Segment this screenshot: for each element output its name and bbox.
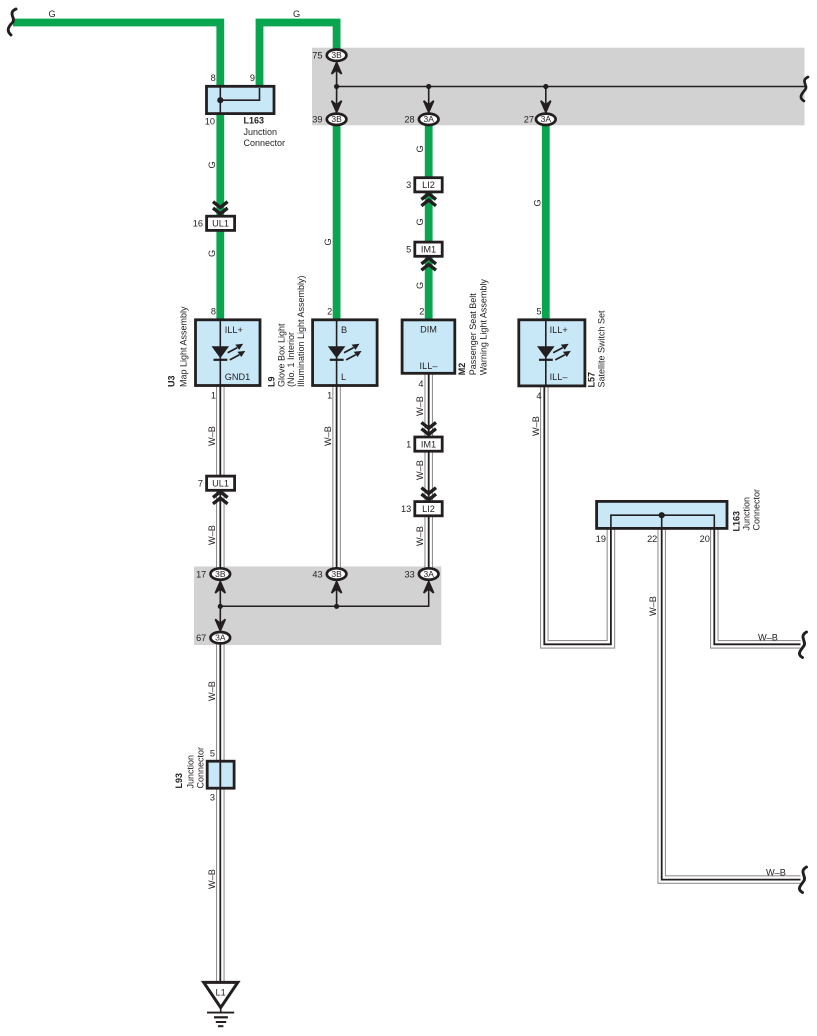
wire label W-B below L57 <box>531 416 541 436</box>
arrow up to 33-3A <box>424 582 434 594</box>
svg-text:Junction: Junction <box>186 755 196 789</box>
bus wire band1 <box>337 86 806 88</box>
svg-text:Passenger Seat Belt: Passenger Seat Belt <box>468 293 478 376</box>
svg-text:Map Light Assembly: Map Light Assembly <box>179 306 189 387</box>
M2 designator <box>457 279 489 376</box>
svg-text:Connector: Connector <box>195 747 205 789</box>
L163 top designator <box>244 116 286 149</box>
wire label G below UL1 <box>207 250 217 257</box>
break squiggle wire 20 right <box>799 632 806 658</box>
svg-text:5: 5 <box>536 307 541 317</box>
bus wire band2 <box>220 580 428 606</box>
node 17 label <box>196 569 206 579</box>
wire G connector 39-3B to L9 pin 2 <box>333 121 341 320</box>
LED U3 <box>212 344 246 360</box>
svg-text:2: 2 <box>327 307 332 317</box>
wire G IM1 5 to M2 pin 2 <box>425 256 433 320</box>
UL1 16 box text <box>212 219 229 229</box>
wire W-B connector 67-3A to L93 pin 5 <box>216 642 225 761</box>
component M2 Passenger Seat Belt Warning Light Assembly <box>402 320 455 373</box>
svg-text:28: 28 <box>404 115 414 125</box>
wire label W-B between IM1 and LI2 <box>415 460 425 480</box>
wire G from left break to L163 pin 8 <box>13 23 220 87</box>
svg-text:W–B: W–B <box>766 868 786 878</box>
wire W-B L9 pin1 to connector 43-3B <box>332 386 341 571</box>
wire W-B UL1 7 to connector 17-3B <box>216 490 225 570</box>
svg-text:G: G <box>415 218 425 225</box>
chevron arrows below IM1 5 (pointing up) <box>421 258 436 270</box>
svg-text:G: G <box>415 282 425 289</box>
junction dot band2 at 43 <box>334 604 339 609</box>
svg-text:M2: M2 <box>457 363 467 376</box>
svg-text:U3: U3 <box>167 375 177 387</box>
connector oval 17-3B <box>211 568 231 579</box>
svg-text:G: G <box>207 250 217 257</box>
svg-text:Junction: Junction <box>244 127 278 137</box>
U3 GND1 <box>225 372 251 382</box>
LED L57 <box>537 344 571 360</box>
svg-text:16: 16 <box>193 219 203 229</box>
chevron arrows below LI2 3 (pointing up) <box>421 194 436 206</box>
junction connector L163 (right) <box>597 501 727 528</box>
LI2 3 pin label <box>406 180 411 190</box>
connector oval 28-3A <box>419 114 439 125</box>
L9 designator <box>267 275 306 387</box>
wire W-B M2 pin4 to IM1 1 <box>424 373 433 437</box>
wire W-B L163 pin 20 to right break <box>714 528 800 644</box>
svg-text:8: 8 <box>211 307 216 317</box>
wire G from L163 pin 9 to connector 75-3B <box>260 23 337 87</box>
connector oval 27-3A <box>536 114 556 125</box>
connector oval 39-3B <box>327 114 347 125</box>
svg-text:LI2: LI2 <box>422 504 435 514</box>
L93 designator <box>174 747 205 789</box>
wire G connector 28-3A to LI2 3 <box>425 121 433 178</box>
link 17-3B to bus <box>215 580 225 606</box>
svg-text:ILL+: ILL+ <box>225 325 243 335</box>
link bus to 67-3A <box>215 606 225 632</box>
svg-text:Junction: Junction <box>742 497 752 531</box>
svg-text:4: 4 <box>536 391 541 401</box>
svg-text:5: 5 <box>406 244 411 254</box>
L163 top pin 10 <box>205 117 215 127</box>
ground L1 <box>204 982 238 1026</box>
svg-text:3A: 3A <box>423 114 434 124</box>
junction dot band1 at 27 <box>543 84 548 89</box>
L163 top pin 9 <box>250 73 255 83</box>
svg-text:G: G <box>49 9 56 19</box>
svg-text:20: 20 <box>700 534 710 544</box>
L163 right pin 22 <box>647 534 657 544</box>
svg-text:9: 9 <box>250 73 255 83</box>
junction connector L163 (top) <box>207 86 275 113</box>
link bus to 27-3A <box>541 87 551 115</box>
L57 pin 4 <box>536 391 541 401</box>
svg-text:33: 33 <box>404 569 414 579</box>
UL1 16 pin label <box>193 219 203 229</box>
wire label W-B pin22 horizontal <box>766 868 786 878</box>
junction dot band1 at 28 <box>426 84 431 89</box>
svg-text:Glove Box Light: Glove Box Light <box>276 323 286 387</box>
svg-text:W–B: W–B <box>415 460 425 480</box>
svg-text:67: 67 <box>196 633 206 643</box>
svg-text:13: 13 <box>401 504 411 514</box>
node 39 label <box>312 115 322 125</box>
svg-text:3A: 3A <box>215 633 226 643</box>
LI2 3 box text <box>422 180 435 190</box>
L9 pin 2 <box>327 307 332 317</box>
wire G LI2 3 to IM1 5 <box>425 192 433 242</box>
svg-text:W–B: W–B <box>531 416 541 436</box>
break squiggle band1 right <box>801 77 808 101</box>
M2 ILL- <box>420 361 439 371</box>
IM1 5 box text <box>421 245 436 255</box>
svg-text:IM1: IM1 <box>421 245 436 255</box>
wire label W-B pin22 vertical <box>648 596 658 616</box>
wire label W-B below LI2 13 <box>415 526 425 546</box>
node 43 label <box>312 569 322 579</box>
wire label G above L9 <box>323 238 333 245</box>
M2 pin 2 <box>419 307 424 317</box>
wire label G above LI2 3 <box>415 145 425 152</box>
svg-text:ILL–: ILL– <box>420 361 439 371</box>
wire label G above M2 <box>415 282 425 289</box>
svg-text:75: 75 <box>312 51 322 61</box>
svg-text:1: 1 <box>327 391 332 401</box>
svg-text:L: L <box>341 372 346 382</box>
svg-text:W–B: W–B <box>323 426 333 446</box>
svg-text:L93: L93 <box>174 773 184 789</box>
svg-text:4: 4 <box>418 379 423 389</box>
svg-text:UL1: UL1 <box>212 479 229 489</box>
chevron arrows into UL1 16 (pointing down) <box>213 202 228 214</box>
svg-text:W–B: W–B <box>415 526 425 546</box>
wire label W-B above ground <box>207 869 217 889</box>
connector box UL1 7 <box>207 476 235 490</box>
U3 pin 1 <box>211 391 216 401</box>
wire label G (top second) <box>293 9 300 19</box>
M2 DIM <box>420 324 437 334</box>
L9 B <box>341 325 347 335</box>
M2 pin 4 <box>418 379 423 389</box>
wire label W-B below 67 <box>207 681 217 701</box>
connector oval 33-3A <box>419 568 439 579</box>
wire G connector 27-3A to L57 pin 5 <box>542 121 550 320</box>
svg-text:G: G <box>532 199 542 206</box>
svg-text:W–B: W–B <box>758 632 778 642</box>
svg-text:3B: 3B <box>215 569 226 579</box>
wire W-B L93 pin 3 to ground L1 <box>216 788 225 983</box>
gray band 2 (connector 3A/3B region middle) <box>194 567 441 646</box>
svg-text:8: 8 <box>211 73 216 83</box>
component U3 Map Light Assembly <box>196 320 261 386</box>
node 33 label <box>404 569 414 579</box>
L9 L <box>341 372 346 382</box>
connector box LI2 13 <box>415 502 442 516</box>
connector box IM1 1 <box>415 437 442 451</box>
L163 right pin 19 <box>596 534 606 544</box>
component L57 Satellite Switch Set <box>519 320 585 386</box>
wire label G (top left) <box>49 9 56 19</box>
break squiggle wire 22 right <box>799 867 806 893</box>
svg-text:43: 43 <box>312 569 322 579</box>
wire W-B L163 pin 22 to right break <box>662 528 801 879</box>
svg-text:3: 3 <box>210 793 215 803</box>
svg-text:1: 1 <box>406 439 411 449</box>
L163 top pin 8 <box>211 73 216 83</box>
svg-text:W–B: W–B <box>207 426 217 446</box>
gray band 1 (connector 3A/3B region top) <box>312 48 805 126</box>
LI2 13 pin label <box>401 504 411 514</box>
UL1 7 pin label <box>198 478 203 488</box>
chevron arrows above IM1 1 (pointing down) <box>421 422 436 434</box>
svg-text:UL1: UL1 <box>212 219 229 229</box>
svg-text:Connector: Connector <box>751 489 761 531</box>
svg-text:W–B: W–B <box>648 596 658 616</box>
link 75-3B to bus <box>332 60 342 87</box>
wire label W-B below U3 <box>207 426 217 446</box>
connector oval 67-3A <box>211 632 231 643</box>
wire label W-B pin20 horizontal <box>758 632 778 642</box>
svg-text:3B: 3B <box>331 50 342 60</box>
break squiggle left <box>8 9 16 35</box>
node 27 label <box>524 115 534 125</box>
svg-text:2: 2 <box>419 307 424 317</box>
LI2 13 box text <box>422 504 435 514</box>
wire G L163 pin10 to UL1 16 <box>216 114 224 217</box>
svg-text:Warning Light Assembly: Warning Light Assembly <box>479 279 489 376</box>
chevron arrows out of UL1 7 (pointing up) <box>213 492 228 504</box>
svg-text:L163: L163 <box>732 511 742 532</box>
svg-text:7: 7 <box>198 478 203 488</box>
U3 ILL+ <box>225 325 243 335</box>
svg-text:L163: L163 <box>244 116 265 126</box>
wire label W-B below UL1 7 <box>207 525 217 545</box>
wire W-B U3 pin1 to UL1 7 <box>216 386 225 477</box>
svg-text:Satellite Switch Set: Satellite Switch Set <box>597 310 607 388</box>
svg-text:5: 5 <box>210 749 215 759</box>
svg-text:GND1: GND1 <box>225 372 251 382</box>
junction connector L93 <box>207 761 234 788</box>
junction dot band1 at 75/39 <box>334 84 339 89</box>
link bus to 39-3B <box>332 87 342 115</box>
component L9 Glove Box Light <box>313 320 378 386</box>
svg-text:1: 1 <box>211 391 216 401</box>
svg-text:27: 27 <box>524 115 534 125</box>
svg-text:G: G <box>415 145 425 152</box>
link bus to 28-3A <box>424 87 434 115</box>
svg-text:G: G <box>293 9 300 19</box>
svg-text:10: 10 <box>205 117 215 127</box>
svg-text:19: 19 <box>596 534 606 544</box>
ground L1 label <box>215 988 225 998</box>
wire label W-B below L9 <box>323 426 333 446</box>
svg-text:W–B: W–B <box>207 681 217 701</box>
node 67 label <box>196 633 206 643</box>
U3 pin 8 <box>211 307 216 317</box>
svg-text:G: G <box>323 238 333 245</box>
connector box IM1 5 <box>415 242 442 256</box>
svg-text:W–B: W–B <box>207 525 217 545</box>
wire label G above L57 <box>532 199 542 206</box>
svg-text:3: 3 <box>406 180 411 190</box>
wire W-B L57 pin4 to L163 pin 19 <box>544 386 611 644</box>
junction dot band2 at 17 <box>218 604 223 609</box>
node 75 label <box>312 51 322 61</box>
svg-text:3A: 3A <box>541 114 552 124</box>
svg-text:(No. 1 Interior: (No. 1 Interior <box>286 332 296 387</box>
svg-text:G: G <box>207 161 217 168</box>
wire W-B IM1 1 to LI2 13 <box>424 451 433 502</box>
svg-text:B: B <box>341 325 347 335</box>
IM1 1 box text <box>421 439 436 449</box>
svg-text:DIM: DIM <box>420 324 437 334</box>
link 43-3B to bus <box>332 580 342 606</box>
wire W-B LI2 13 to connector 33-3A <box>424 515 433 570</box>
L57 pin 5 <box>536 307 541 317</box>
svg-text:ILL+: ILL+ <box>550 325 568 335</box>
svg-text:L9: L9 <box>267 376 277 387</box>
svg-text:IM1: IM1 <box>421 439 436 449</box>
wire label W-B below M2 <box>415 396 425 416</box>
connector oval 75-3B <box>327 50 347 61</box>
node 28 label <box>404 115 414 125</box>
svg-text:Connector: Connector <box>244 138 286 148</box>
connector box UL1 16 <box>207 216 235 230</box>
svg-text:Illumination Light Assembly): Illumination Light Assembly) <box>296 275 306 387</box>
L93 pin 5 <box>210 749 215 759</box>
L57 ILL- <box>550 372 569 382</box>
svg-text:ILL–: ILL– <box>550 372 569 382</box>
L93 pin 3 <box>210 793 215 803</box>
svg-text:3A: 3A <box>423 569 434 579</box>
svg-text:3B: 3B <box>331 569 342 579</box>
UL1 7 box text <box>212 479 229 489</box>
svg-text:L1: L1 <box>215 988 225 998</box>
U3 designator <box>167 306 189 387</box>
L163 right pin 20 <box>700 534 710 544</box>
svg-text:39: 39 <box>312 115 322 125</box>
L57 designator <box>587 310 607 388</box>
L163 right designator <box>732 489 762 532</box>
svg-text:LI2: LI2 <box>422 180 435 190</box>
svg-text:3B: 3B <box>331 114 342 124</box>
svg-text:L57: L57 <box>587 372 597 388</box>
wire G UL1 16 to U3 pin 8 <box>216 230 224 319</box>
svg-text:W–B: W–B <box>415 396 425 416</box>
connector box LI2 3 <box>415 178 442 192</box>
connector oval 43-3B <box>327 568 347 579</box>
svg-text:W–B: W–B <box>207 869 217 889</box>
IM1 1 pin label <box>406 439 411 449</box>
L57 ILL+ <box>550 325 568 335</box>
LED L9 <box>328 344 362 360</box>
L9 pin 1 <box>327 391 332 401</box>
svg-text:17: 17 <box>196 569 206 579</box>
wire label G between LI2 and IM1 <box>415 218 425 225</box>
IM1 5 pin label <box>406 244 411 254</box>
svg-text:22: 22 <box>647 534 657 544</box>
wire label G above UL1 <box>207 161 217 168</box>
chevron arrows above LI2 13 (pointing down) <box>421 488 436 500</box>
